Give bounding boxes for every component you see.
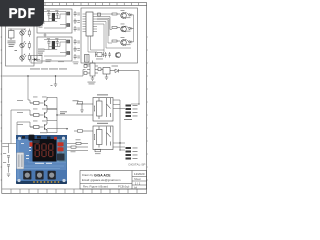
capacitor C11 [104, 52, 107, 58]
red dot top [54, 137, 57, 140]
IC on pcb [57, 154, 65, 161]
capacitor C2 [56, 12, 59, 19]
svg-text:1 / 1: 1 / 1 [135, 181, 141, 185]
transistor Q6 [44, 109, 47, 120]
C13 C14 labels [3, 153, 6, 163]
terminal J3 [67, 40, 70, 55]
CN2 label [133, 148, 138, 159]
power supply box PS1 [37, 9, 72, 33]
C5-C7 labels [77, 13, 80, 31]
T2 primary text [38, 49, 45, 56]
Q1-Q3 labels [121, 10, 131, 45]
diode D7 [115, 69, 139, 73]
PDF badge [0, 0, 44, 27]
transistor Q3 [121, 40, 127, 46]
MCU block box [81, 8, 138, 63]
7-seg digit 1 [35, 144, 39, 157]
red jumper right 1 [58, 142, 64, 146]
PCB white silkscreen dots [21, 143, 62, 159]
7-seg display body [33, 139, 57, 162]
connector CN1 [126, 105, 132, 118]
wire net labels [17, 100, 23, 125]
U2 value label [8, 41, 18, 52]
wire left feeds [11, 76, 33, 144]
capacitor C6 [74, 19, 77, 25]
R4 label [76, 138, 81, 141]
5.0V label [60, 100, 79, 114]
R label row2 [33, 108, 47, 111]
R label row1 [33, 96, 47, 99]
C10 value label [73, 62, 79, 65]
snubber diode fill [34, 58, 37, 61]
transistor Q4 [115, 52, 120, 57]
PCB silkscreen traces [18, 139, 66, 178]
C3 C4 labels [47, 37, 59, 40]
svg-text:GIGA ACE: GIGA ACE [94, 173, 111, 177]
relay RL1 [93, 98, 113, 122]
ground [7, 174, 10, 177]
driver row 2 : resistor R7 [30, 114, 44, 117]
wire [67, 143, 125, 150]
pin mark between PS boxes [44, 33, 47, 37]
title block text [82, 172, 145, 189]
ground relay1 [76, 102, 93, 113]
frame zone ticks bottom [11, 189, 137, 193]
PCB module photo [16, 135, 67, 184]
wire [44, 12, 66, 29]
7-seg digit 2 [42, 144, 46, 157]
U1 left pins [83, 14, 87, 32]
capacitor C14 [7, 165, 10, 173]
LED D11 [20, 41, 26, 47]
regulator circuit parts [84, 61, 101, 81]
driver row 1 : resistor R6 [30, 102, 44, 105]
power supply box PS2 [37, 37, 72, 61]
driver row 3 : resistor R8 [30, 126, 44, 129]
capacitor C8 [74, 39, 77, 45]
resistor R4 [76, 142, 88, 144]
capacitor C5 [74, 11, 77, 17]
transformer T1 core [52, 13, 55, 21]
crystal Y1 [96, 52, 104, 57]
C8-C10 labels [77, 41, 80, 59]
resistor R1 [112, 13, 120, 15]
IC U2 [9, 29, 15, 41]
wire [113, 100, 139, 150]
LED D4 [126, 26, 133, 30]
U3 labels [88, 66, 119, 85]
ground [105, 74, 108, 79]
white connector [17, 153, 24, 170]
display glare [33, 140, 40, 143]
wire VCC rail [2, 70, 139, 105]
terminal J2 [67, 12, 70, 27]
PCB mounting holes [17, 137, 65, 183]
resistor R13 [95, 149, 101, 152]
connector CN2 [126, 147, 132, 160]
7-seg digit 3 [49, 144, 53, 157]
svg-text:Email: gigaace.ele@gmail.com: Email: gigaace.ele@gmail.com [82, 178, 121, 182]
wire bus [88, 13, 131, 52]
transformer T2 core [52, 41, 55, 49]
wire input lines [2, 144, 16, 154]
transistor Q5 [44, 97, 47, 108]
small box D6 snubber [31, 56, 42, 64]
wire [44, 40, 66, 57]
resistor R10 [28, 29, 30, 38]
title block [80, 171, 147, 190]
transistor Q2 [121, 26, 127, 32]
PCB label above [40, 132, 47, 133]
capacitor C13 [7, 156, 10, 164]
svg-text:Drawn by:: Drawn by: [82, 173, 94, 177]
pin header gold dots [33, 181, 59, 183]
wire [133, 15, 135, 42]
transistor Q1 [121, 13, 127, 19]
capacitor C7 [74, 26, 77, 32]
red jumper right 2 [58, 147, 64, 151]
capacitor C3 [47, 40, 50, 47]
capacitor C12 [108, 52, 111, 58]
capacitor C1 [47, 12, 50, 19]
capacitor C4 [56, 40, 59, 47]
ground [51, 84, 58, 86]
frame zone ticks sides [1, 37, 148, 180]
svg-text:PCB (by): PCB (by) [118, 185, 129, 189]
wire collector bus [47, 97, 93, 132]
PCB top small parts [22, 136, 51, 139]
R label row3 [33, 120, 47, 123]
R5 label [71, 150, 76, 153]
LED D10 [20, 29, 26, 35]
transistor Q7 [44, 121, 47, 132]
resistor R11 [28, 41, 30, 50]
diode D15 [94, 135, 95, 140]
frame zone ticks top [9, 3, 139, 6]
sheet frame [2, 3, 147, 194]
C1 C2 labels [47, 9, 59, 12]
regulator U3 [101, 68, 115, 75]
R13 label [95, 152, 101, 155]
PCB top capacitor [29, 135, 35, 141]
relay RL2 label [97, 123, 108, 124]
capacitor C9 [74, 47, 77, 53]
display bottom text strip [35, 163, 52, 164]
button SW2 [35, 171, 43, 180]
CN1 label [124, 105, 138, 120]
button SW1 [23, 171, 31, 180]
button SW3 [48, 171, 56, 180]
resistor R9 on relay2 input [74, 130, 93, 133]
junction dots [27, 75, 139, 150]
relay RL2 [93, 126, 113, 150]
resistor R2 [112, 27, 120, 29]
indicator block box [6, 9, 35, 66]
MCU U1 [86, 12, 93, 36]
LED D3 [126, 13, 133, 17]
connector J1 [85, 55, 90, 63]
wire [47, 109, 57, 120]
LED D5 [126, 40, 133, 44]
resistor R12 [28, 53, 30, 62]
svg-text:Rev: Figure it Board: Rev: Figure it Board [83, 185, 108, 189]
note text line [30, 59, 67, 69]
wire [67, 150, 88, 152]
U1 right pins [93, 14, 97, 32]
relay RL1 label [97, 94, 108, 95]
wire [47, 97, 57, 108]
capacitor C10 [74, 54, 77, 60]
svg-text:12/2020: 12/2020 [134, 172, 145, 176]
T1 primary text [38, 21, 45, 28]
svg-text:DIGITAL-SP: DIGITAL-SP [129, 162, 146, 166]
resistor R3 [112, 40, 120, 42]
wire [8, 29, 26, 62]
LED red left [30, 142, 33, 146]
resistor R5 [67, 146, 88, 148]
LED D12 [20, 54, 26, 60]
Y1 label [84, 59, 103, 65]
diode D14 [94, 106, 95, 111]
svg-text:Sheet: Sheet [134, 177, 141, 181]
